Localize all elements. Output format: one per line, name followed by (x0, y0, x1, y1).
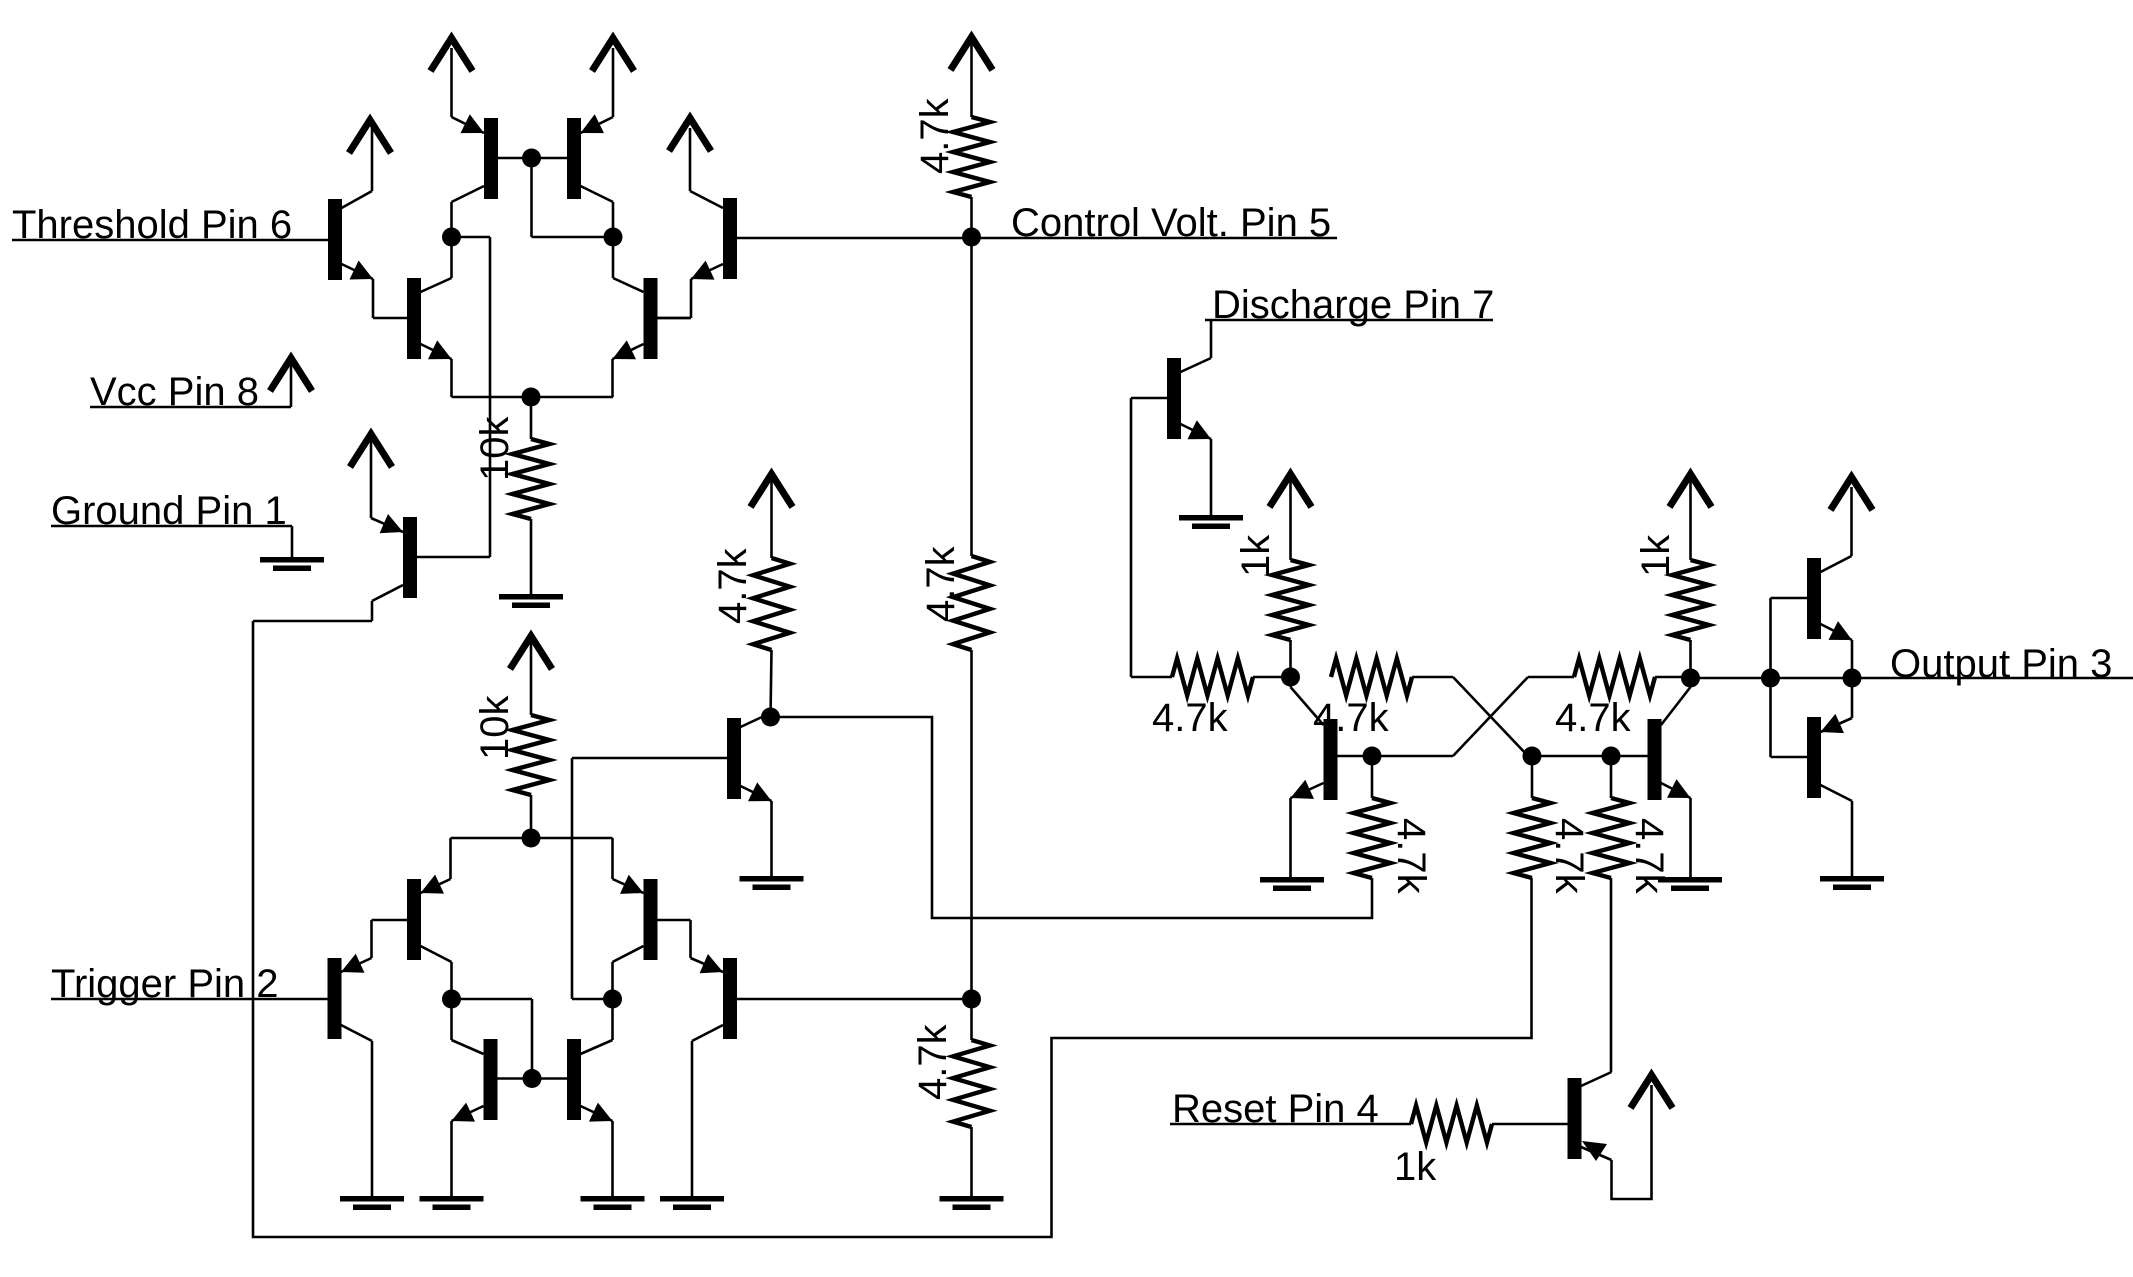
svg-text:4.7k: 4.7k (1627, 818, 1671, 895)
svg-text:4.7k: 4.7k (1389, 818, 1433, 895)
svg-text:4.7k: 4.7k (911, 1023, 955, 1100)
svg-text:4.7k: 4.7k (1555, 696, 1632, 740)
svg-text:4.7k: 4.7k (711, 547, 755, 624)
svg-text:1k: 1k (1394, 1145, 1437, 1189)
svg-text:4.7k: 4.7k (913, 97, 957, 174)
svg-text:4.7k: 4.7k (919, 545, 963, 622)
svg-text:10k: 10k (473, 416, 517, 481)
svg-text:4.7k: 4.7k (1152, 696, 1229, 740)
svg-text:1k: 1k (1634, 534, 1678, 577)
svg-text:4.7k: 4.7k (1547, 818, 1591, 895)
svg-text:Output Pin 3: Output Pin 3 (1890, 642, 2112, 686)
svg-text:1k: 1k (1234, 534, 1278, 577)
